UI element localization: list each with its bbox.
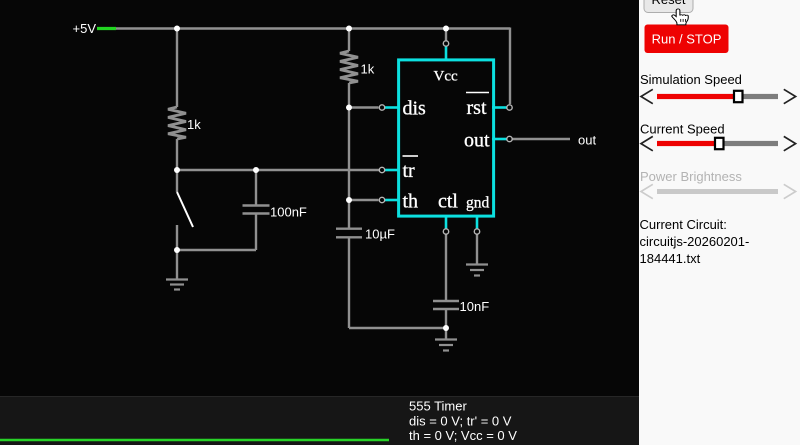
svg-text:+5V: +5V <box>73 21 97 36</box>
svg-text:184441.txt: 184441.txt <box>640 251 701 266</box>
svg-text:Reset: Reset <box>652 0 686 7</box>
svg-text:dis = 0 V; tr' = 0 V: dis = 0 V; tr' = 0 V <box>409 414 512 429</box>
svg-text:gnd: gnd <box>466 195 490 212</box>
svg-text:Current Speed: Current Speed <box>640 122 725 137</box>
svg-text:10nF: 10nF <box>460 299 490 314</box>
svg-text:tr: tr <box>403 160 416 182</box>
svg-text:555 Timer: 555 Timer <box>409 399 467 414</box>
svg-text:out: out <box>464 130 490 152</box>
svg-text:Vcc: Vcc <box>434 69 458 85</box>
svg-text:dis: dis <box>403 98 427 120</box>
svg-text:1k: 1k <box>361 62 375 77</box>
svg-text:out: out <box>578 133 596 148</box>
svg-text:10µF: 10µF <box>365 227 395 242</box>
svg-text:Simulation Speed: Simulation Speed <box>640 72 742 87</box>
svg-text:Current Circuit:: Current Circuit: <box>640 217 727 232</box>
svg-text:1k: 1k <box>187 117 201 132</box>
svg-text:rst: rst <box>467 97 487 119</box>
svg-text:Power Brightness: Power Brightness <box>640 169 742 184</box>
svg-text:Run / STOP: Run / STOP <box>652 32 722 47</box>
svg-text:circuitjs-20260201-: circuitjs-20260201- <box>640 234 750 249</box>
svg-text:th = 0 V; Vcc = 0 V: th = 0 V; Vcc = 0 V <box>409 428 517 443</box>
svg-text:ctl: ctl <box>438 191 458 213</box>
svg-text:th: th <box>403 191 419 213</box>
svg-text:100nF: 100nF <box>270 205 307 220</box>
